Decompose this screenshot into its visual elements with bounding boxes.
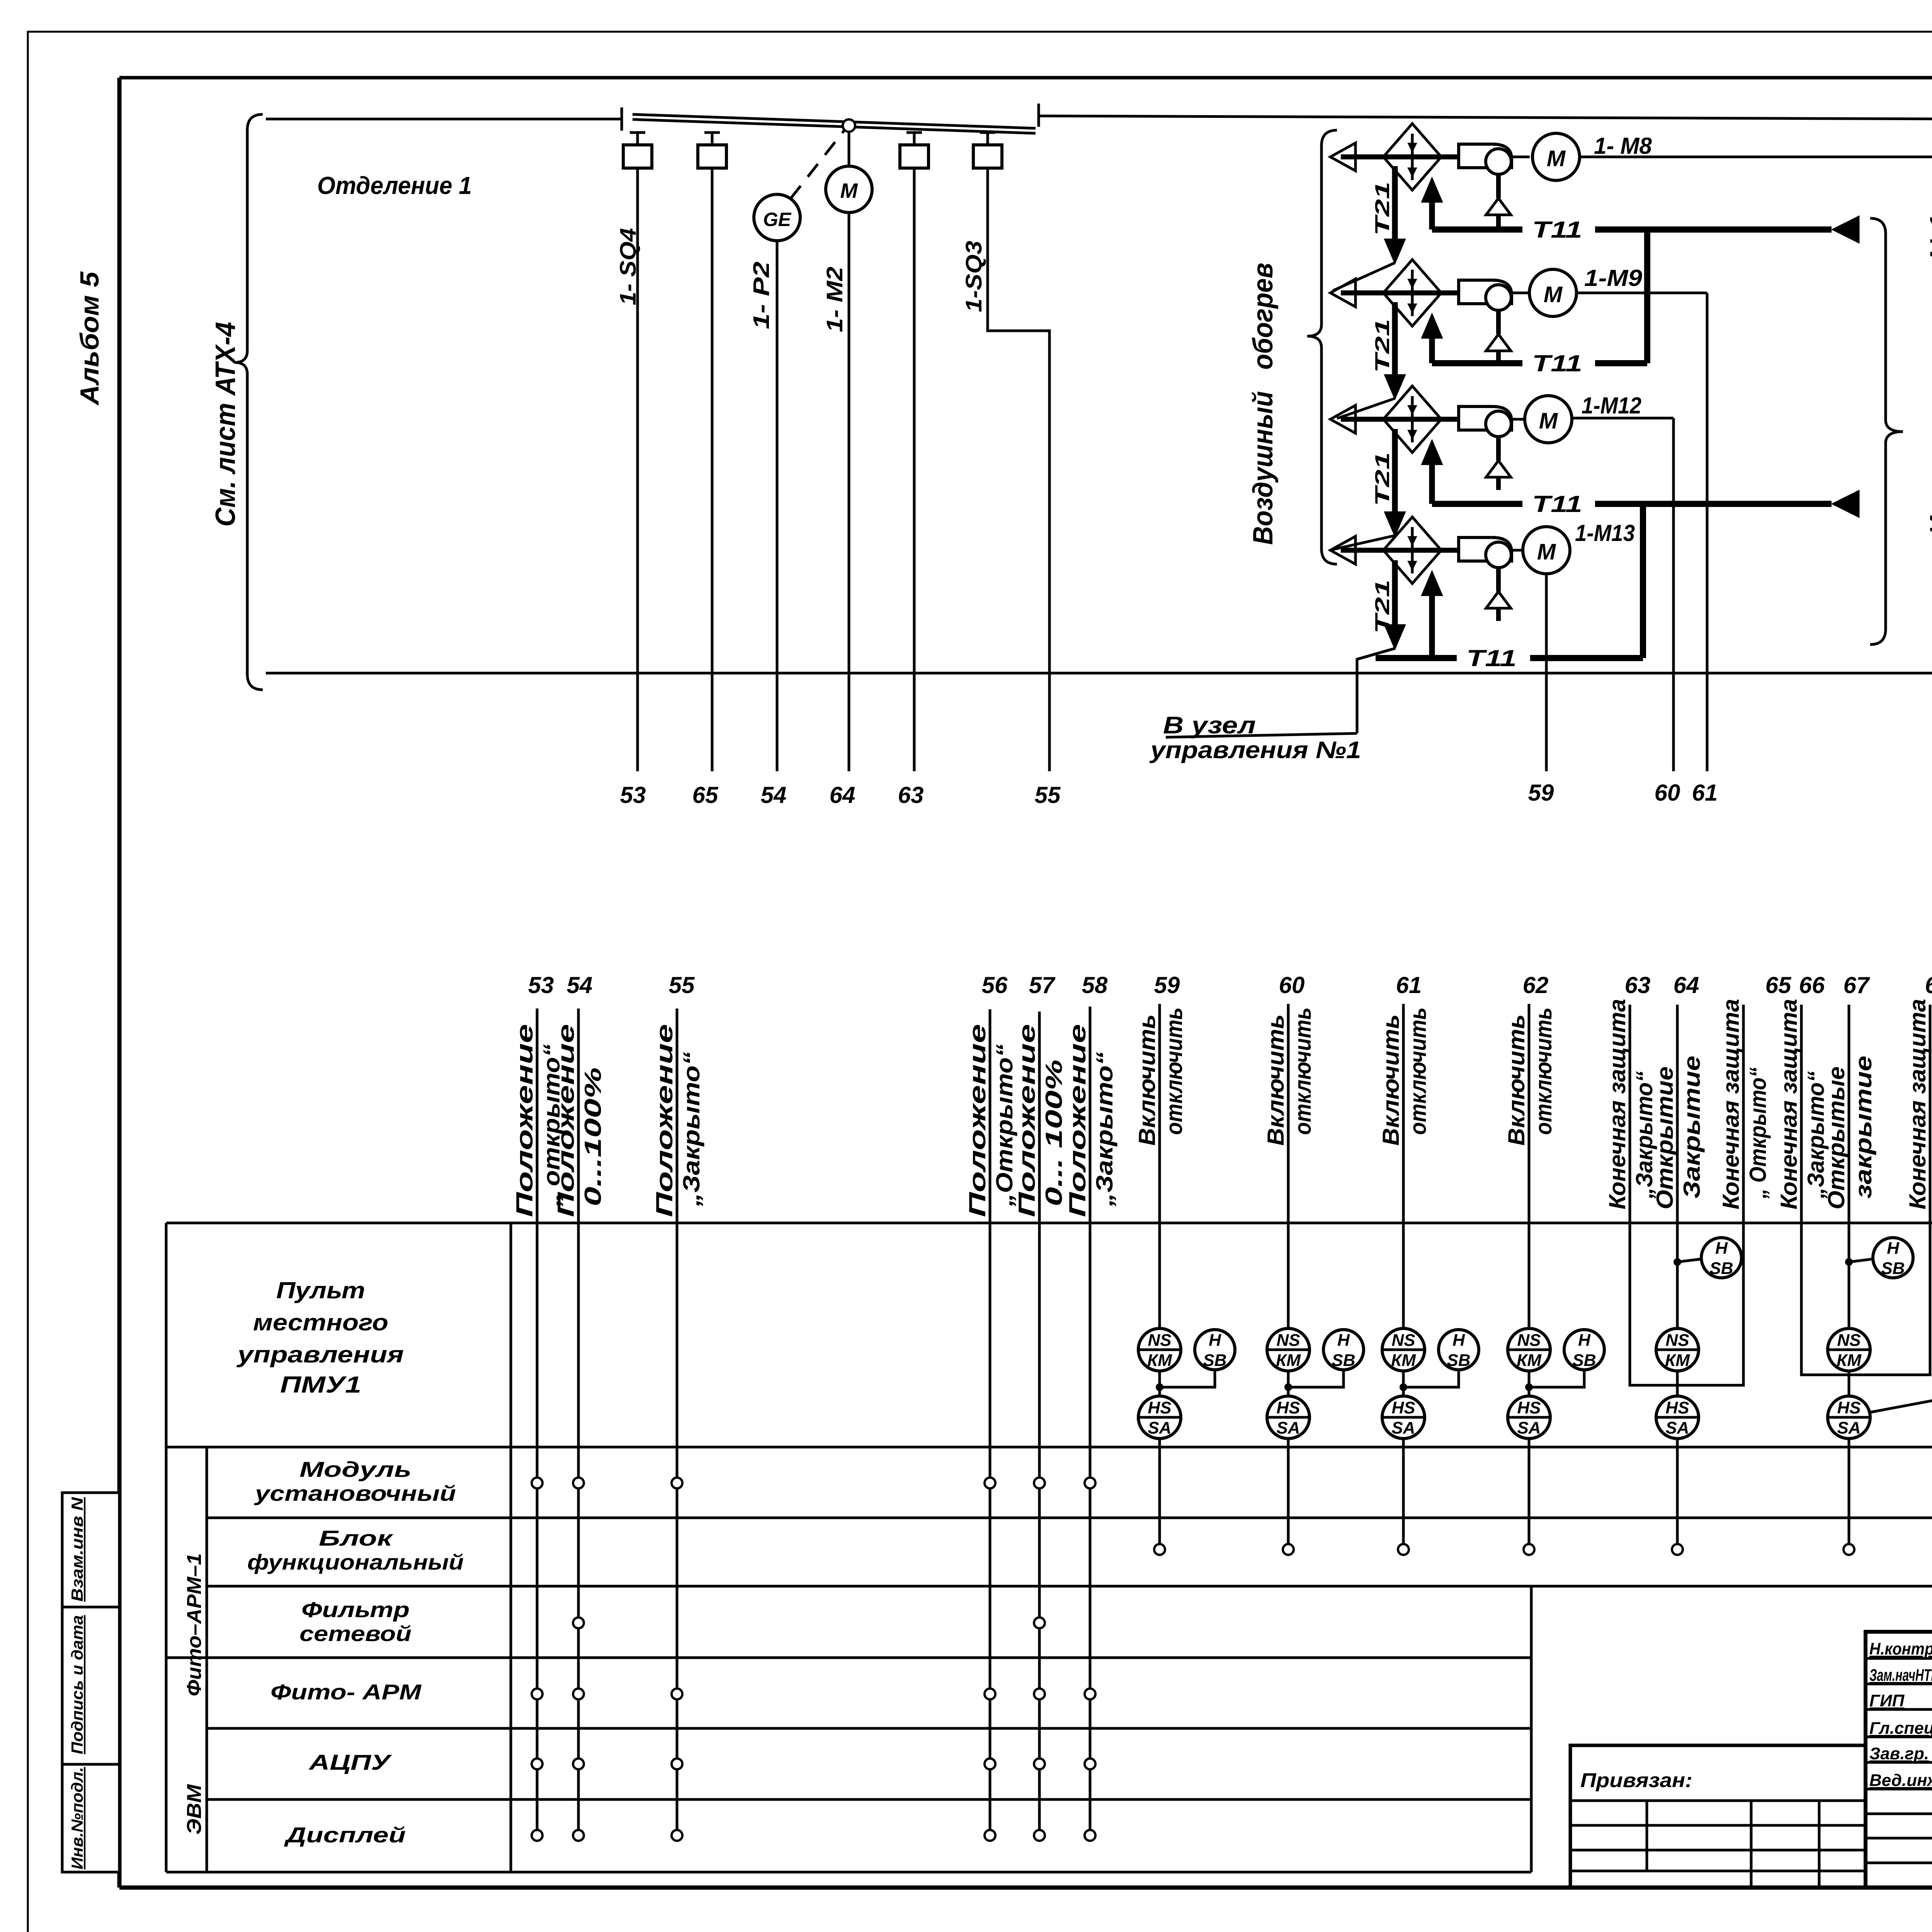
svg-text:Из узла управления №1: Из узла управления №1 — [1925, 214, 1932, 535]
pipe Т21 above heater 3 — [1392, 302, 1398, 376]
signal line 63 with bracket to 65 — [1630, 1005, 1743, 1385]
wire top bus left segment — [266, 118, 622, 121]
limit switch 1-SQ3 — [980, 131, 995, 134]
air inlet triangle of 1-M13 — [1330, 536, 1355, 564]
pipe Т21 to control unit — [1392, 560, 1398, 626]
pipe Т11 join 3-4 — [1640, 501, 1646, 658]
svg-text:60: 60 — [1655, 780, 1680, 806]
arrow Т11 to control unit (upper) — [1832, 216, 1859, 243]
T11 riser arrow into 1-M13 diamond — [1429, 595, 1435, 658]
drive motor 1-M2 (M) — [826, 166, 872, 213]
svg-text:Включить: Включить — [1263, 1014, 1289, 1146]
vent window 1 (tilted double line) — [633, 114, 1036, 128]
svg-text:53: 53 — [528, 972, 554, 998]
flow pointer line — [1357, 648, 1395, 659]
svg-text:закрытие: закрытие — [1850, 1056, 1876, 1199]
svg-text:57: 57 — [1029, 972, 1056, 998]
svg-text:АЦПУ: АЦПУ — [308, 1750, 392, 1774]
svg-text:1-М13: 1-М13 — [1575, 520, 1635, 546]
svg-text:КМ: КМ — [1147, 1351, 1172, 1370]
connection nodes row Фито-АРМ — [532, 1689, 543, 1699]
arrow Т11 to control unit (lower) — [1832, 490, 1859, 518]
fan motor 1-M13 (M) — [1523, 527, 1570, 574]
svg-text:Т11: Т11 — [1532, 350, 1582, 376]
svg-text:„Открыто“: „Открыто“ — [992, 1044, 1017, 1207]
pushbutton station NS/KM (line 67) — [1828, 1328, 1870, 1371]
margin box Инв.№подл. — [62, 1764, 119, 1872]
wire 1-M13 motor to line 59 — [1545, 574, 1548, 771]
svg-text:Положение: Положение — [1014, 1024, 1040, 1217]
svg-text:68: 68 — [1925, 972, 1932, 998]
svg-text:HS: HS — [1148, 1398, 1171, 1417]
valve of 1-M13 — [1496, 568, 1501, 592]
fan motor 1-M12 (M) — [1525, 396, 1572, 443]
svg-text:Т21: Т21 — [1371, 452, 1394, 506]
valve of 1-M12 — [1496, 437, 1501, 461]
selector switch HS/SA (line 61) — [1382, 1396, 1425, 1439]
air inlet triangle of 1-M9 — [1330, 279, 1355, 307]
fan of 1-M9 — [1459, 280, 1512, 304]
svg-text:отключить: отключить — [1405, 1007, 1431, 1135]
dashed link GE P2 to vent pivot — [791, 130, 845, 199]
wire 1-M12 motor to line 60 — [1572, 417, 1673, 420]
air duct of 1-M9 — [1341, 291, 1459, 296]
top section bottom boundary wire — [266, 672, 1932, 675]
heat exchanger diamond of 1-M9 — [1383, 260, 1441, 326]
pushbutton station NS/KM (line 61) — [1382, 1328, 1425, 1371]
vent left T-bar — [621, 107, 623, 131]
svg-text:65: 65 — [1765, 972, 1792, 998]
svg-text:Вед.инж: Вед.инж — [1869, 1771, 1932, 1790]
svg-text:54: 54 — [567, 972, 593, 998]
svg-text:КМ: КМ — [1276, 1351, 1301, 1370]
wire M2 to vent pivot — [848, 132, 850, 166]
margin box Взам.инв.N — [62, 1493, 119, 1607]
wire fan to motor of 1-M9 — [1511, 292, 1530, 294]
svg-text:Н: Н — [1887, 1239, 1900, 1258]
svg-text:NS: NS — [1665, 1331, 1689, 1350]
table row line (Фильтр bottom) — [166, 1656, 1531, 1659]
svg-text:„ Открыто“: „ Открыто“ — [1745, 1067, 1771, 1199]
wire to В узел управления №1 — [1357, 648, 1395, 733]
svg-text:SA: SA — [1276, 1418, 1300, 1437]
pipe Т11 join 1-2 — [1644, 226, 1650, 363]
svg-text:Положение: Положение — [553, 1024, 579, 1217]
svg-text:Н: Н — [1715, 1239, 1728, 1258]
connection nodes row Фильтр сетевой — [573, 1617, 584, 1628]
svg-text:Т11: Т11 — [1466, 645, 1517, 671]
svg-text:SB: SB — [1203, 1351, 1226, 1370]
group brace Воздушный обогрев — [1307, 130, 1337, 564]
terminal nodes row Блок функциональный — [1154, 1544, 1165, 1555]
valve of 1-M9 — [1496, 310, 1501, 334]
svg-text:Т11: Т11 — [1532, 217, 1582, 243]
flow pointer line — [1333, 536, 1395, 549]
svg-text:отключить: отключить — [1161, 1007, 1187, 1135]
pipe Т21 above heater 4 — [1392, 429, 1398, 513]
svg-text:0... 100%: 0... 100% — [1041, 1060, 1067, 1206]
svg-text:HS: HS — [1837, 1398, 1861, 1417]
svg-text:Н.контр.: Н.контр. — [1869, 1639, 1932, 1658]
svg-text:SA: SA — [1148, 1418, 1171, 1437]
svg-text:Воздушный обогрев: Воздушный обогрев — [1248, 263, 1279, 545]
pushbutton station NS/KM (line 59) — [1138, 1328, 1181, 1371]
pipe Т11 of heater 1 — [1432, 226, 1522, 233]
fan motor 1-M8 (M) — [1532, 133, 1580, 180]
svg-text:NS: NS — [1276, 1331, 1300, 1350]
svg-text:Альбом 5: Альбом 5 — [75, 271, 104, 406]
air inlet triangle of 1-M8 — [1330, 143, 1355, 171]
margin box Подпись и дата — [62, 1607, 119, 1764]
pipe Т11 of heater 3 — [1432, 501, 1522, 507]
svg-text:63: 63 — [898, 782, 924, 808]
svg-text:65: 65 — [692, 782, 719, 808]
svg-text:NS: NS — [1391, 1331, 1415, 1350]
drawing inner frame — [119, 76, 1932, 80]
svg-text:КМ: КМ — [1837, 1351, 1862, 1370]
svg-text:M: M — [1544, 282, 1563, 307]
svg-text:SB: SB — [1447, 1351, 1470, 1370]
table row line (header bottom) — [166, 1446, 1932, 1449]
svg-text:1- P2: 1- P2 — [749, 262, 774, 329]
table row line (Модуль bottom) — [207, 1517, 1932, 1519]
svg-text:КМ: КМ — [1665, 1351, 1690, 1370]
svg-text:HS: HS — [1665, 1398, 1689, 1417]
selector switch HS/SA (line 64) — [1656, 1396, 1699, 1439]
connector H/SB to line 67 — [1849, 1259, 1874, 1262]
svg-text:1-М12: 1-М12 — [1582, 393, 1641, 418]
svg-text:SA: SA — [1517, 1418, 1541, 1437]
svg-text:отключить: отключить — [1531, 1007, 1556, 1135]
vent right T-bar — [1037, 104, 1040, 127]
svg-text:M: M — [1547, 146, 1566, 171]
wire fan to motor of 1-M13 — [1511, 549, 1530, 552]
svg-text:1-М9: 1-М9 — [1584, 265, 1643, 291]
pipe Т21 above heater 2 — [1392, 166, 1398, 240]
svg-text:SB: SB — [1332, 1351, 1355, 1370]
svg-text:53: 53 — [620, 782, 646, 808]
svg-text:КМ: КМ — [1517, 1351, 1542, 1370]
svg-text:функциональный: функциональный — [247, 1550, 464, 1574]
table box Пульт местного управления ПМУ1 — [166, 1222, 1932, 1225]
svg-text:Пульт: Пульт — [276, 1277, 365, 1303]
table row line (АЦПУ bottom) — [207, 1798, 1531, 1801]
wire fan to motor of 1-M12 — [1511, 418, 1530, 421]
svg-text:Взам.инв N: Взам.инв N — [68, 1497, 86, 1602]
signal line 53 — [536, 1009, 539, 1835]
pipe Т11 of heater 2 — [1432, 360, 1522, 366]
heat exchanger diamond of 1-M13 — [1383, 517, 1441, 583]
svg-text:SB: SB — [1709, 1259, 1733, 1278]
wire 1-M9 motor to line 61 — [1577, 292, 1707, 294]
svg-text:управления: управления — [236, 1342, 404, 1367]
svg-text:SB: SB — [1881, 1259, 1905, 1278]
heat exchanger diamond of 1-M12 — [1383, 386, 1441, 452]
svg-text:SA: SA — [1391, 1418, 1415, 1437]
signal line 59 — [1158, 1004, 1161, 1328]
svg-text:61: 61 — [1396, 972, 1422, 998]
connection nodes row Дисплей — [532, 1830, 543, 1841]
svg-text:SB: SB — [1572, 1351, 1596, 1370]
Привязан box — [1570, 1745, 1866, 1888]
switch box (line 63) — [906, 131, 922, 134]
air duct of 1-M13 — [1341, 548, 1459, 553]
svg-text:Положение: Положение — [651, 1024, 677, 1217]
svg-text:Отделение 1: Отделение 1 — [317, 172, 472, 199]
svg-text:Т21: Т21 — [1371, 182, 1394, 236]
fan of 1-M12 — [1459, 406, 1512, 430]
svg-text:64: 64 — [1673, 972, 1699, 998]
connector H/SB to line 60 — [1288, 1370, 1344, 1387]
lamp H/SB (line 62) — [1564, 1330, 1604, 1370]
section brace См. лист АТХ-4 — [235, 114, 263, 690]
svg-text:GE: GE — [763, 209, 792, 230]
svg-text:61: 61 — [1692, 780, 1718, 806]
svg-text:Закрытие: Закрытие — [1679, 1056, 1705, 1199]
signal line 54 — [577, 1009, 580, 1835]
svg-text:Т21: Т21 — [1371, 580, 1394, 634]
signal line 55 — [676, 1009, 679, 1835]
signal line 62 — [1528, 1004, 1531, 1328]
svg-text:Положение: Положение — [1065, 1024, 1090, 1217]
wire top bus right segment — [1039, 116, 1932, 121]
air inlet triangle of 1-M12 — [1330, 405, 1355, 433]
air duct of 1-M8 — [1341, 155, 1459, 160]
svg-text:SA: SA — [1837, 1418, 1861, 1437]
svg-text:Н: Н — [1578, 1331, 1591, 1350]
lamp H/SB upper (line 67) — [1873, 1238, 1913, 1278]
svg-text:1- M2: 1- M2 — [822, 267, 847, 332]
table header divider — [510, 1223, 512, 1872]
svg-text:Гл.спец: Гл.спец — [1869, 1719, 1932, 1738]
lamp H/SB (line 60) — [1323, 1330, 1364, 1370]
svg-text:Т21: Т21 — [1371, 319, 1394, 373]
svg-text:Конечная защита: Конечная защита — [1718, 999, 1744, 1209]
fan of 1-M8 — [1459, 144, 1512, 168]
signal line 58 — [1089, 1007, 1092, 1835]
limit switch 1-SQ4 — [630, 131, 645, 134]
stamp outline — [1866, 1632, 1932, 1888]
signal line 64 — [1676, 1005, 1679, 1328]
svg-text:HS: HS — [1276, 1398, 1300, 1417]
svg-text:Положение: Положение — [512, 1024, 537, 1217]
svg-text:Подпись и дата: Подпись и дата — [68, 1615, 86, 1754]
connector H/SB to line 64 — [1677, 1259, 1702, 1262]
selector switch HS/SA (line 59) — [1138, 1396, 1181, 1439]
svg-text:Т11: Т11 — [1532, 491, 1582, 517]
svg-text:ГИП: ГИП — [1869, 1691, 1905, 1710]
svg-text:Фито–АРМ–1: Фито–АРМ–1 — [183, 1553, 206, 1696]
svg-text:Блок: Блок — [319, 1526, 394, 1550]
svg-text:M: M — [1537, 539, 1556, 565]
connector H/SB to line 62 — [1529, 1370, 1584, 1387]
signal line 60 — [1287, 1004, 1290, 1328]
svg-text:Фильтр: Фильтр — [301, 1597, 410, 1622]
selector switch HS/SA (line 67) — [1828, 1396, 1870, 1439]
svg-text:58: 58 — [1082, 972, 1108, 998]
svg-text:NS: NS — [1148, 1331, 1171, 1350]
svg-text:0...100%: 0...100% — [580, 1067, 606, 1206]
svg-text:66: 66 — [1799, 972, 1825, 998]
pushbutton station NS/KM (line 62) — [1508, 1328, 1550, 1371]
connector H/SB to line 61 — [1403, 1370, 1459, 1387]
svg-text:Привязан:: Привязан: — [1580, 1769, 1692, 1792]
connection nodes row Модуль установочный — [532, 1478, 543, 1488]
svg-text:59: 59 — [1154, 972, 1180, 998]
svg-text:Положение: Положение — [964, 1024, 990, 1217]
svg-text:ЭВМ: ЭВМ — [183, 1784, 206, 1835]
T11 riser arrow into 1-M8 diamond — [1429, 201, 1435, 230]
pushbutton station NS/KM (line 64) — [1656, 1328, 1699, 1371]
stamp signature rows — [1866, 1657, 1932, 1660]
lamp H/SB (line 61) — [1439, 1330, 1479, 1370]
wire line 65 drop — [711, 168, 714, 771]
vent 1 pivot — [843, 119, 855, 132]
brace Из узла управления №1 — [1870, 218, 1903, 645]
svg-text:55: 55 — [669, 972, 695, 998]
svg-text:Зам.начНТК: Зам.начНТК — [1869, 1666, 1932, 1685]
signal line 61 — [1402, 1004, 1405, 1328]
table row line (Фито-АРМ bottom) — [207, 1727, 1531, 1730]
flow pointer line — [1333, 263, 1395, 291]
svg-text:Модуль: Модуль — [299, 1457, 412, 1481]
air duct of 1-M12 — [1341, 417, 1459, 422]
svg-text:HS: HS — [1517, 1398, 1541, 1417]
svg-text:60: 60 — [1279, 972, 1305, 998]
pipe Т11 of heater 4 — [1376, 655, 1457, 661]
wire line 54 drop (from GE 1-P2) — [776, 241, 779, 771]
fan motor 1-M9 (M) — [1529, 269, 1577, 316]
svg-text:отключить: отключить — [1290, 1007, 1316, 1135]
svg-text:Дисплей: Дисплей — [284, 1823, 406, 1847]
T11 riser arrow into 1-M9 diamond — [1429, 337, 1435, 363]
switch box (line 65) — [704, 131, 720, 134]
svg-text:1- М8: 1- М8 — [1594, 133, 1652, 159]
svg-text:Н: Н — [1337, 1331, 1350, 1350]
svg-text:Конечная защита: Конечная защита — [1604, 999, 1630, 1209]
svg-text:64: 64 — [830, 782, 855, 808]
svg-text:Включить: Включить — [1134, 1014, 1160, 1146]
selector switch HS/SA (line 60) — [1267, 1396, 1310, 1439]
svg-text:Конечная защита: Конечная защита — [1776, 999, 1802, 1209]
signal line Выбор управления with diagonal to HS/SA 67 — [1870, 965, 1932, 1412]
lamp H/SB upper (line 64) — [1701, 1238, 1742, 1278]
heat exchanger diamond of 1-M8 — [1383, 124, 1441, 190]
signal line 67 — [1848, 1005, 1850, 1328]
connection nodes row АЦПУ — [532, 1759, 543, 1769]
table row line (Блок bottom) — [207, 1585, 1932, 1588]
signal line 56 — [989, 1009, 992, 1835]
wire 1-M8 motor to line 62 — [1580, 156, 1932, 158]
svg-text:56: 56 — [982, 972, 1008, 998]
signal line 66 with bracket to 68 — [1801, 1005, 1930, 1375]
T11 riser arrow into 1-M12 diamond — [1429, 464, 1435, 504]
svg-text:Инв.№подл.: Инв.№подл. — [68, 1767, 86, 1869]
svg-text:Конечная защита: Конечная защита — [1905, 999, 1930, 1209]
svg-text:местного: местного — [253, 1310, 388, 1335]
Привязан sub-table — [1570, 1799, 1866, 1802]
pushbutton station NS/KM (line 60) — [1267, 1328, 1310, 1371]
svg-text:Н: Н — [1452, 1331, 1465, 1350]
wire line 55 drop with jog — [988, 168, 1049, 771]
table group column divider — [206, 1447, 208, 1872]
svg-text:55: 55 — [1035, 782, 1061, 808]
flow pointer line — [1337, 398, 1395, 418]
svg-text:M: M — [840, 179, 858, 202]
svg-text:NS: NS — [1837, 1331, 1861, 1350]
position transmitter 1-P2 (GE) — [754, 194, 800, 241]
wire line 64 drop (from M 1-M2) — [848, 213, 850, 771]
svg-text:62: 62 — [1523, 972, 1549, 998]
wire fan to motor of 1-M8 — [1511, 156, 1530, 158]
signal line 57 — [1038, 1012, 1041, 1835]
valve of 1-M8 — [1496, 174, 1501, 198]
svg-text:1-SQ3: 1-SQ3 — [961, 241, 986, 312]
svg-text:SA: SA — [1665, 1418, 1689, 1437]
svg-text:Н: Н — [1209, 1331, 1221, 1350]
svg-text:Открытие: Открытие — [1652, 1066, 1678, 1209]
svg-text:„Закрыто“: „Закрыто“ — [679, 1052, 704, 1207]
svg-text:Включить: Включить — [1378, 1014, 1404, 1146]
svg-text:Зав.гр.: Зав.гр. — [1869, 1744, 1929, 1763]
svg-text:сетевой: сетевой — [299, 1621, 412, 1646]
svg-text:ПМУ1: ПМУ1 — [280, 1372, 361, 1398]
wire line 53 drop — [636, 168, 639, 771]
svg-text:См. лист АТХ-4: См. лист АТХ-4 — [210, 322, 241, 527]
svg-text:КМ: КМ — [1391, 1351, 1416, 1370]
svg-text:Фито- АРМ: Фито- АРМ — [270, 1680, 422, 1704]
svg-text:M: M — [1539, 408, 1558, 434]
fan of 1-M13 — [1459, 537, 1512, 561]
svg-text:установочный: установочный — [253, 1481, 456, 1505]
svg-text:59: 59 — [1528, 780, 1554, 806]
svg-text:NS: NS — [1517, 1331, 1541, 1350]
svg-text:67: 67 — [1844, 972, 1870, 998]
svg-text:„Закрыто“: „Закрыто“ — [1092, 1052, 1117, 1207]
svg-text:54: 54 — [761, 782, 787, 808]
svg-text:63: 63 — [1625, 972, 1651, 998]
svg-text:Включить: Включить — [1503, 1014, 1529, 1146]
wire line 63 drop — [913, 168, 916, 771]
svg-text:управления №1: управления №1 — [1149, 737, 1361, 764]
svg-text:Открытые: Открытые — [1823, 1066, 1849, 1209]
lamp H/SB (line 59) — [1195, 1330, 1235, 1370]
connector H/SB to line 59 — [1160, 1370, 1215, 1387]
selector switch HS/SA (line 62) — [1508, 1396, 1550, 1439]
svg-text:HS: HS — [1391, 1398, 1415, 1417]
